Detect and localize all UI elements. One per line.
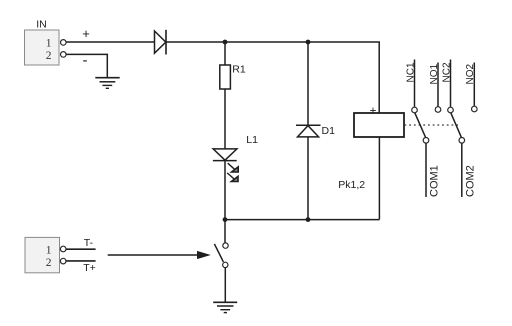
connector J2 body: [25, 237, 60, 272]
LED L1 emission arrow 2: [227, 173, 238, 182]
connector J1 pin 1 circle: [61, 40, 67, 46]
connector J2 pin 2 circle: [60, 258, 66, 264]
connector J1 body: [25, 30, 60, 65]
contact terminal NO2 wire: [473, 63, 475, 107]
wire IN pin2 to ground: [66, 54, 107, 77]
contact common COM1 circle: [423, 138, 429, 144]
ground symbol (switch): [213, 302, 237, 312]
contact common COM2 wire: [461, 143, 463, 197]
contact terminal NC2 wire: [450, 60, 452, 108]
connector J1 pin 2 circle: [61, 52, 67, 58]
diode CR1 cathode bar: [165, 30, 167, 55]
svg-text:NC1: NC1: [405, 62, 416, 82]
contact common COM1 wire: [425, 143, 427, 197]
svg-text:NO1: NO1: [429, 64, 440, 85]
junction node above R1: [223, 40, 228, 45]
svg-text:L1: L1: [246, 134, 258, 146]
contact terminal NC2 circle: [448, 107, 454, 113]
wire switch to ground: [224, 268, 226, 303]
svg-text:+: +: [369, 104, 376, 118]
switch S1 bottom circle: [223, 262, 228, 267]
resistor R1 lead bottom: [224, 89, 226, 149]
svg-text:2: 2: [46, 257, 52, 269]
svg-text:D1: D1: [322, 125, 336, 137]
contact terminal NO1 circle: [435, 107, 441, 113]
ground symbol (input): [95, 78, 119, 89]
diode D1 cathode bar: [296, 124, 321, 126]
switch S1 arm: [214, 244, 223, 262]
contact common COM2 circle: [459, 138, 465, 144]
junction node above D1: [306, 40, 311, 45]
contact terminal NC1 circle: [412, 107, 418, 113]
switch S1 top circle: [223, 243, 228, 248]
svg-text:NO2: NO2: [465, 64, 476, 85]
svg-text:2: 2: [46, 50, 52, 62]
diode D1 triangle: [298, 126, 319, 137]
diode D1 lead bottom: [307, 137, 309, 220]
svg-text:IN: IN: [36, 19, 47, 31]
svg-text:COM1: COM1: [429, 165, 441, 197]
LED L1 triangle: [213, 149, 237, 160]
junction node bottom rail left: [223, 217, 228, 222]
actuation arrow to switch: [108, 252, 209, 259]
resistor R1 lead top: [224, 42, 226, 65]
contact terminal NC1 wire: [414, 60, 416, 108]
LED L1 emission arrow 1: [228, 163, 239, 172]
wire T- stub: [66, 248, 96, 250]
svg-text:COM2: COM2: [464, 165, 476, 197]
relay contact arm 1: [415, 113, 426, 138]
dashed mechanical link relay to contacts: [405, 124, 459, 126]
svg-text:R1: R1: [232, 63, 246, 75]
svg-text:NC2: NC2: [441, 62, 452, 82]
junction node below D1: [306, 217, 311, 222]
svg-text:1: 1: [46, 245, 52, 257]
svg-text:T-: T-: [84, 237, 94, 249]
LED L1 cathode bar: [213, 160, 237, 162]
bottom rail wire: [225, 219, 379, 221]
svg-text:T+: T+: [83, 262, 96, 274]
svg-text:+: +: [82, 26, 90, 41]
relay coil K1 body: [354, 113, 404, 137]
diode D1 lead top: [307, 42, 309, 125]
diode CR1 triangle: [155, 31, 166, 53]
svg-text:Pk1,2: Pk1,2: [338, 179, 365, 191]
connector J2 pin 1 circle: [60, 246, 66, 252]
wire T+ stub: [66, 260, 96, 262]
svg-text:1: 1: [46, 38, 52, 50]
contact terminal NO2 circle: [472, 106, 478, 112]
wire diode cathode to relay top rail: [166, 42, 379, 113]
contact terminal NO1 wire: [437, 63, 439, 107]
wire LED cathode to bottom rail junction: [224, 161, 226, 243]
wire IN pin1 to diode anode: [66, 41, 154, 43]
relay coil bottom lead: [378, 137, 380, 220]
resistor R1 body: [220, 65, 231, 89]
relay contact arm 2: [451, 113, 462, 138]
